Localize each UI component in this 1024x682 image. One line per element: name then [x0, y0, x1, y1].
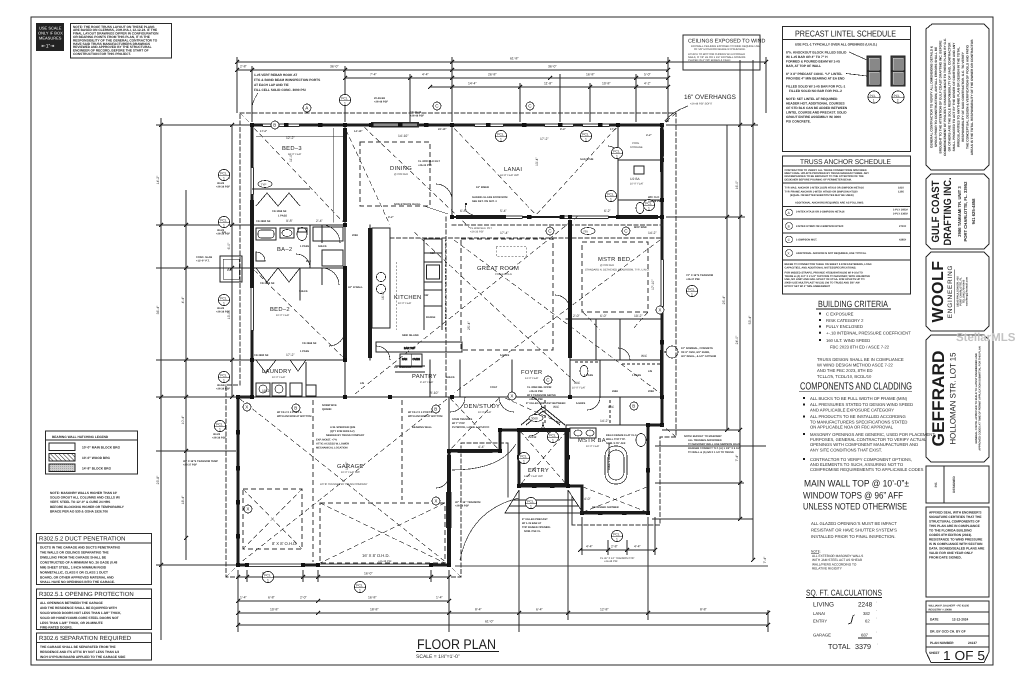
svg-text:8'-10" FLAT: 8'-10" FLAT [420, 381, 434, 384]
svg-text:RELATIVE RIGIDITY: RELATIVE RIGIDITY [812, 567, 843, 571]
components and cladding [799, 382, 935, 473]
svg-text:C EXPOSURE: C EXPOSURE [826, 311, 854, 316]
svg-text:ALL BUCKS TO BE FULL WIDTH OF: ALL BUCKS TO BE FULL WIDTH OF FRAME (MIN… [810, 396, 908, 401]
wc oval near foyer [580, 366, 588, 377]
svg-text:SHALL HAVE NO OPENINGS INTO TH: SHALL HAVE NO OPENINGS INTO THE GARAGE. [40, 580, 115, 584]
svg-text:10'-0" FLAT W/P: 10'-0" FLAT W/P [341, 471, 360, 474]
svg-text:1 PASS: 1 PASS [632, 374, 641, 377]
svg-text:18” RISER: 18” RISER [476, 186, 489, 189]
kitchen counters [372, 228, 390, 328]
svg-text:STORAGE: STORAGE [630, 146, 643, 149]
svg-text:INCH GYPSUM BOARD APPLIED TO T: INCH GYPSUM BOARD APPLIED TO THE GARAGE … [40, 655, 125, 659]
svg-text:NONMETALLIC, CLASS 0 OR CLASS: NONMETALLIC, CLASS 0 OR CLASS 1 DUCT [40, 571, 108, 575]
svg-text:AND THE FBC 2023, 8TH ED: AND THE FBC 2023, 8TH ED [817, 368, 873, 373]
svg-text:2-MTEK HTA16 OR 2-SIMPSON HE: 2-MTEK HTA16 OR 2-SIMPSON HETA16 [796, 211, 845, 214]
svg-text:SEE DET. ON SHT. 3: SEE DET. ON SHT. 3 [472, 200, 497, 203]
svg-text:VERT. STEEL TO 12’-0” & CURE 2: VERT. STEEL TO 12’-0” & CURE 24 HRS [50, 500, 110, 504]
svg-text:DESIGNER BEFORE POURING OF PER: DESIGNER BEFORE POURING OF PERIMETER BEA… [785, 178, 852, 181]
svg-text:NOTE:: NOTE: [811, 550, 821, 554]
precast lintel schedule box [783, 27, 911, 152]
svg-text:24'-0": 24'-0" [735, 335, 739, 344]
svg-text:6'-8”: 6'-8” [460, 209, 467, 213]
svg-text:687: 687 [861, 633, 869, 638]
lanai top wall windows [545, 123, 573, 128]
roof overhang dashed outline [226, 113, 676, 577]
title block: affixed seal note [926, 507, 989, 597]
svg-text:TOP RAISED OPENING: TOP RAISED OPENING [522, 526, 550, 529]
roof truss note box (top-left) [71, 24, 172, 59]
svg-text:1'-4": 1'-4" [436, 596, 444, 600]
svg-text:17'-2”: 17'-2” [286, 353, 295, 357]
hall diagonals [346, 130, 565, 425]
svg-text:ALL GLAZED OPENING’S MUST BE I: ALL GLAZED OPENING’S MUST BE IMPACT [811, 521, 897, 526]
svg-text:FBC 2023 8TH ED / ASCE 7-22: FBC 2023 8TH ED / ASCE 7-22 [830, 344, 890, 349]
svg-text:1'-4": 1'-4" [240, 596, 248, 600]
svg-text:ATTIC TRUSSES BY TRUSS COMPANY: ATTIC TRUSSES BY TRUSS COMPANY [320, 483, 368, 486]
svg-text:MM) SHEET STEEL, 1 INCH MINIMU: MM) SHEET STEEL, 1 INCH MINIMUM RIGID [40, 566, 107, 570]
garage X big [320, 503, 445, 563]
svg-text:11'-0”: 11'-0” [289, 154, 293, 162]
svg-text:4'-4": 4'-4" [422, 73, 430, 77]
svg-text:FTG & BOND BEAM W/INSPECTION P: FTG & BOND BEAM W/INSPECTION PORTS [254, 78, 320, 82]
svg-text:CAPACITIES, AND ADDITIONAL NOT: CAPACITIES, AND ADDITIONAL NOTES/SPECIFI… [785, 266, 857, 269]
svg-text:2-MTEK HTM20 OR 2-SIMPSON HT: 2-MTEK HTM20 OR 2-SIMPSON HTS20 [796, 225, 844, 228]
svg-text:+26-33 PSF: +26-33 PSF [418, 164, 432, 167]
svg-text:R302.6 SEPARATION REQUIRED: R302.6 SEPARATION REQUIRED [39, 635, 132, 642]
garage header notes [277, 404, 550, 533]
svg-text:OF STD BLK CAN BE ADDED BETWEE: OF STD BLK CAN BE ADDED BETWEEN [786, 106, 848, 110]
svg-text:14'-2": 14'-2" [156, 175, 160, 184]
svg-text:HANGER CONNECT TLT. (A) 1 1/2”: HANGER CONNECT TLT. (A) 1 1/2” X 5 1/2” [688, 447, 742, 450]
svg-text:STRUCTURAL COMPONENTS OF: STRUCTURAL COMPONENTS OF [929, 520, 980, 524]
svg-text:16'-8": 16'-8" [368, 596, 377, 600]
svg-text:9’-2”: 9’-2” [388, 216, 394, 219]
svg-text:1 PASS: 1 PASS [278, 215, 287, 218]
svg-text:TRUSS ANCHOR SCHEDULE: TRUSS ANCHOR SCHEDULE [800, 159, 891, 166]
scale check black box [36, 23, 64, 51]
svg-text:W/C: W/C [641, 354, 648, 358]
svg-text:CD 2880 NF: CD 2880 NF [256, 220, 271, 223]
svg-text:P.E.: P.E. [934, 482, 938, 488]
svg-text:DR. BY GCD CH. BY GF: DR. BY GCD CH. BY GF [930, 630, 966, 634]
svg-text:6'-4": 6'-4" [536, 608, 544, 612]
laundry [256, 383, 270, 396]
title block: signature/date rows [926, 601, 989, 663]
svg-text:USE PCL-1 TYPICALLY OVER ALL O: USE PCL-1 TYPICALLY OVER ALL OPENINGS (U… [795, 43, 877, 47]
svg-text:WINDOW TOPS @ 96” AFF: WINDOW TOPS @ 96” AFF [803, 490, 903, 501]
svg-text:16'-0": 16'-0" [364, 572, 373, 576]
svg-text:MECHANICAL LOCATION: MECHANICAL LOCATION [316, 447, 348, 450]
svg-text:SIGNATURE CERTIFIES THAT THE: SIGNATURE CERTIFIES THAT THE [929, 515, 981, 519]
svg-text:61'-0": 61'-0" [485, 620, 494, 624]
svg-text:1810: 1810 [898, 187, 904, 190]
lintel block icon 1 [867, 56, 881, 86]
building criteria [816, 299, 911, 379]
svg-text:4365#: 4365# [899, 239, 907, 242]
svg-text:HEADER HGT. ADDITIONAL COURSES: HEADER HGT. ADDITIONAL COURSES [786, 102, 845, 106]
kitchen/central diagonals [355, 127, 578, 394]
svg-text:EXP. MOIST. +7%: EXP. MOIST. +7% [316, 439, 338, 442]
svg-text:OF 8” CMU, 3/4” FURR,: OF 8” CMU, 3/4” FURR, [681, 351, 710, 354]
svg-text:1-SIMPSON MGT.: 1-SIMPSON MGT. [796, 239, 817, 242]
svg-text:AREAS IS THE TOTAL RESPONSIBIL: AREAS IS THE TOTAL RESPONSIBILITY OF THE… [970, 39, 974, 156]
svg-text:ALL TRUSSES ANCHORED: ALL TRUSSES ANCHORED [688, 439, 722, 442]
svg-text:DUCTS IN THE GARAGE AND DUCTS: DUCTS IN THE GARAGE AND DUCTS PENETRATIN… [40, 546, 121, 550]
wall construction note right [664, 346, 716, 358]
exterior walls [238, 125, 662, 565]
svg-text:SOLID GROUT ALL COLUMNS AND CE: SOLID GROUT ALL COLUMNS AND CELLS W/ [50, 496, 120, 500]
svg-text:FROM DATE SIGNED.: FROM DATE SIGNED. [929, 556, 962, 560]
svg-text:9'-8”: 9'-8” [286, 219, 293, 223]
svg-text:4'-2": 4'-2" [644, 82, 652, 86]
R302.6 separation required box [37, 633, 152, 660]
svg-text:6'-0”: 6'-0” [600, 314, 607, 318]
svg-text:2'-0”: 2'-0” [573, 314, 580, 318]
svg-text:DATE: DATE [930, 618, 938, 622]
svg-text:24137: 24137 [968, 641, 977, 645]
great room X [454, 240, 660, 393]
svg-text:LESS THAN 1-3/8” THICK, OR 20-: LESS THAN 1-3/8” THICK, OR 20-MINUTE [40, 621, 103, 625]
svg-text:10'-8": 10'-8" [602, 82, 611, 86]
svg-text:PROVIDE 4” MIN BEARING AT EA E: PROVIDE 4” MIN BEARING AT EA END [786, 77, 845, 81]
svg-text:SLIDING GLASS DOOR NOM: SLIDING GLASS DOOR NOM [472, 196, 507, 199]
svg-text:LIN: LIN [360, 382, 364, 385]
svg-text:+26-38 PSF: +26-38 PSF [455, 505, 469, 508]
svg-text:+26-48 PSF: +26-48 PSF [374, 101, 388, 104]
svg-text:6'-8": 6'-8" [268, 596, 276, 600]
svg-text:ENTRY: ENTRY [813, 619, 827, 624]
svg-text:B: B [294, 406, 297, 411]
svg-text:10'-4": 10'-4" [181, 415, 185, 424]
sq ft calculations [806, 588, 882, 652]
svg-text:3379: 3379 [855, 642, 871, 651]
svg-text:+26-38 PSF: +26-38 PSF [648, 200, 662, 203]
svg-text:2'-0": 2'-0" [300, 596, 308, 600]
svg-text:SCALE = 1/4”=1’-0”: SCALE = 1/4”=1’-0” [416, 654, 460, 660]
svg-text:R302.5.2 DUCT PENETRATION: R302.5.2 DUCT PENETRATION [39, 536, 125, 543]
svg-text:2668: 2668 [612, 390, 618, 393]
svg-text:ENGINEERING: ENGINEERING [947, 265, 954, 319]
svg-text:PCL: PCL [870, 94, 876, 98]
svg-text:13'-4”: 13'-4” [535, 157, 539, 166]
svg-text:+26-33 PSF: +26-33 PSF [529, 390, 543, 393]
svg-text:17'-4”: 17'-4” [500, 231, 509, 235]
lanai diagonals [454, 128, 616, 215]
svg-text:6'-0": 6'-0" [227, 242, 231, 250]
svg-text:WIC: WIC [574, 381, 581, 385]
svg-text:DESIGNED: DESIGNED [952, 475, 956, 492]
svg-text:COMMENCEMENT OF PROJECT. CHANG: COMMENCEMENT OF PROJECT. CHANGES MADE TO… [943, 38, 947, 156]
svg-text:36'-0": 36'-0" [548, 65, 557, 69]
svg-text:COMPONENTS AND CLADDING: COMPONENTS AND CLADDING [800, 382, 912, 393]
svg-text:TYP. MAS. ANCHOR 1-MTEK (: TYP. MAS. ANCHOR 1-MTEK (USP) HTA16 OR S… [785, 187, 865, 190]
svg-text:NOTE! BUCKET TO MASONRY: NOTE! BUCKET TO MASONRY [684, 435, 722, 438]
svg-text:GARAGE: GARAGE [337, 463, 364, 470]
svg-text:2068: 2068 [352, 234, 358, 237]
svg-text:NON-STRUCS IN-FILL: NON-STRUCS IN-FILL [394, 203, 421, 206]
svg-text:INSTALLED PRIOR TO FINAL INSPE: INSTALLED PRIOR TO FINAL INSPECTION. [811, 534, 896, 539]
svg-text:36'-4": 36'-4" [156, 305, 160, 314]
svg-text:GENERAL CONTRACTOR TO VERIFY A: GENERAL CONTRACTOR TO VERIFY ALL DIMENSI… [930, 45, 934, 148]
svg-text:PAN: PAN [402, 358, 407, 361]
bifold closet doors (zigzag) [252, 189, 310, 373]
mstr bed X [582, 242, 648, 312]
svg-text:CODES 8TH EDITION (2023).: CODES 8TH EDITION (2023). [929, 533, 972, 537]
svg-text:WILLIAM P. DALHEFF - PE 9310: WILLIAM P. DALHEFF - PE 93105 [929, 605, 970, 608]
svg-text:NOTE: SET LINTEL AT REQUIRED: NOTE: SET LINTEL AT REQUIRED [786, 97, 838, 101]
svg-text:2710#: 2710# [899, 225, 907, 228]
left dimension lines [156, 118, 250, 640]
svg-text:10” NOMINAL, CONSISTS: 10” NOMINAL, CONSISTS [681, 347, 713, 350]
svg-text:THE CONCEPTUAL DESIGN & VERIFI: THE CONCEPTUAL DESIGN & VERIFICATION OF … [966, 45, 970, 149]
svg-text:10'-0" FLAT: 10'-0" FLAT [586, 445, 600, 448]
AC pad [220, 256, 242, 282]
fridge/pantry shelves [395, 365, 425, 367]
svg-text:FILL CELL SOLID CONC. 3000 PSI: FILL CELL SOLID CONC. 3000 PSI [254, 88, 306, 92]
bed3 diagonal [254, 128, 343, 222]
svg-text:5'-0": 5'-0" [644, 73, 652, 77]
svg-text:(QTY FOR R302.5.2): (QTY FOR R302.5.2) [330, 430, 355, 433]
R302.5.2 duct penetration box [37, 534, 152, 585]
svg-text:+26-37 PSF: +26-37 PSF [686, 278, 700, 281]
svg-text:2248: 2248 [858, 602, 873, 609]
svg-text:2986 TAMIAMI TR. UNIT 3: 2986 TAMIAMI TR. UNIT 3 [957, 186, 962, 237]
svg-text:R302.5.1 OPENING PROTECTION: R302.5.1 OPENING PROTECTION [39, 591, 134, 598]
svg-text:36'-0": 36'-0" [330, 65, 339, 69]
svg-text:LINTEL COURSE AND PRECAST. SOL: LINTEL COURSE AND PRECAST. SOLID [786, 111, 847, 115]
svg-text:10’-0” WOOD BRG: 10’-0” WOOD BRG [82, 456, 111, 460]
svg-text:+26-38 PSF: +26-38 PSF [216, 186, 230, 189]
main wall notes [803, 478, 909, 571]
svg-text:NOTE: MASONRY WALLS HIGHER THA: NOTE: MASONRY WALLS HIGHER THAN 10’ [50, 491, 117, 495]
svg-text:SOLID OR HONEYCOMB CORE STEEL: SOLID OR HONEYCOMB CORE STEEL DOORS NOT [40, 616, 119, 620]
svg-text:ADDITIONAL ANCHOR IS NOT REQUI: ADDITIONAL ANCHOR IS NOT REQUIRED, USE T… [796, 252, 867, 255]
svg-text:BAR TOP: BAR TOP [404, 347, 416, 350]
svg-text:RESISTANT OR HAVE SHUTTER SYST: RESISTANT OR HAVE SHUTTER SYSTEM’S [811, 528, 897, 533]
svg-text:11'-8": 11'-8" [544, 82, 553, 86]
svg-text:22’-10”: 22’-10” [438, 128, 447, 131]
svg-text:BEFORE BLOCKING HIGHER OR TEMP: BEFORE BLOCKING HIGHER OR TEMPORARILY [50, 505, 125, 509]
svg-text:KITCHEN: KITCHEN [394, 294, 422, 301]
right dimension lines [666, 60, 758, 560]
svg-text:REF: REF [430, 252, 436, 255]
svg-text:W/ 1-#5 BAR OR 4” TO 7” H: W/ 1-#5 BAR OR 4” TO 7” H [786, 55, 828, 59]
svg-text:GULF COAST: GULF COAST [930, 180, 942, 242]
svg-text:12'-0" FLAT W/P: 12'-0" FLAT W/P [524, 475, 543, 478]
svg-text:PSI CONCRETE.: PSI CONCRETE. [786, 120, 811, 124]
svg-text:SOLID WOOD DOORS NOT LESS THAN: SOLID WOOD DOORS NOT LESS THAN 1-3/8” TH… [40, 611, 121, 615]
svg-text:GARAGE: GARAGE [813, 633, 831, 638]
svg-text:14'-4": 14'-4" [468, 82, 477, 86]
svg-text:5-SHFS: 5-SHFS [576, 402, 585, 405]
svg-text:FILLED SOLID W/ 1-#5 BAR FOR P: FILLED SOLID W/ 1-#5 BAR FOR PCL-1 [786, 85, 846, 89]
svg-text:8' X 8' O.H.D.: 8' X 8' O.H.D. [272, 541, 297, 546]
shower X [583, 487, 647, 512]
svg-text:X: X [245, 405, 248, 410]
svg-text:UNLESS NOTED OTHERWISE: UNLESS NOTED OTHERWISE [803, 501, 907, 512]
door arcs [296, 146, 630, 488]
top dimension lines [237, 57, 766, 122]
ceilings exposed to wind note box [683, 35, 765, 70]
svg-text:62: 62 [865, 619, 870, 624]
svg-text:8” FILLED PRECAST: 8” FILLED PRECAST [522, 518, 548, 521]
svg-text:BUILDING CRITERIA: BUILDING CRITERIA [818, 299, 888, 309]
svg-text:A.W. SPENCER QHS: A.W. SPENCER QHS [330, 426, 355, 429]
R302.5.1 opening protection box [37, 589, 152, 630]
svg-text:1-#5 VERT REBAR HOOK AT: 1-#5 VERT REBAR HOOK AT [254, 73, 297, 77]
svg-text:WITH ANCHOR AT BOTTOM: WITH ANCHOR AT BOTTOM [277, 415, 311, 418]
svg-text:10'-0" FLAT: 10'-0" FLAT [272, 376, 286, 379]
svg-text:OF 5/8” EXTERIOR GRADE GYPSUM: OF 5/8” EXTERIOR GRADE GYPSUM BRD. [694, 48, 746, 51]
bottom dimension lines [238, 430, 768, 632]
svg-text:CD 2880 NF: CD 2880 NF [254, 354, 269, 357]
svg-text:CD 3068 NF: CD 3068 NF [272, 210, 287, 213]
svg-text:8'-8": 8'-8" [700, 608, 708, 612]
PCL-1 marker [868, 91, 880, 103]
svg-text:14'-10”: 14'-10” [398, 134, 408, 138]
svg-text:CL 3000 BLK FILT: CL 3000 BLK FILT [418, 160, 440, 163]
svg-text:WITH ANCHOR AT BOTTOM: WITH ANCHOR AT BOTTOM [408, 415, 442, 418]
svg-text:OVEN: OVEN [413, 358, 420, 361]
svg-text:LIVING: LIVING [813, 602, 834, 609]
svg-text:10'-0" FLAT: 10'-0" FLAT [276, 314, 290, 317]
svg-text:OR OTHERS ARE THE SOLE RESPONS: OR OTHERS ARE THE SOLE RESPONSIBILITY OF… [948, 42, 952, 152]
svg-text:12'-8": 12'-8" [600, 608, 609, 612]
svg-text:8” X 8” PRECAST CONC. “U” LINT: 8” X 8” PRECAST CONC. “U” LINTEL [786, 72, 842, 76]
svg-text:17’-2”: 17’-2” [260, 130, 268, 133]
windows (white gap + double line) [250, 122, 665, 454]
svg-text:GEFFRARD: GEFFRARD [929, 351, 948, 447]
svg-text:7'-4": 7'-4" [370, 73, 378, 77]
svg-text:8” FILLED PRECAST BETWEEN: 8” FILLED PRECAST BETWEEN [526, 402, 565, 405]
svg-text:2: 2 [897, 99, 899, 103]
svg-text:ATTIC ACCESS W. LOWER: ATTIC ACCESS W. LOWER [316, 443, 349, 446]
interior dashed truss/ceiling lines [226, 113, 676, 577]
svg-text:RESPONSIBILITY OF SAID CONTRAC: RESPONSIBILITY OF SAID CONTRACTOR. G.C. … [961, 51, 965, 142]
svg-text:⇤1”⇥: ⇤1”⇥ [42, 44, 55, 50]
svg-text:RESISTANCE TO WIND PRESSURE: RESISTANCE TO WIND PRESSURE [929, 538, 982, 542]
interior walls [252, 125, 662, 486]
svg-text:LANAI: LANAI [504, 167, 522, 173]
svg-text:THE WALLS OR CEILINGS SEPARATI: THE WALLS OR CEILINGS SEPARATING THE [40, 551, 109, 555]
island nook [376, 342, 462, 352]
svg-text:3/4” INSUL., & 1/2” GYPSUM: 3/4” INSUL., & 1/2” GYPSUM [681, 355, 716, 358]
svg-text:GREAT ROOM: GREAT ROOM [477, 265, 519, 272]
svg-text:7'-4": 7'-4" [763, 556, 767, 564]
kitchen upper-cabinet dashed lines [396, 240, 526, 330]
svg-text:795: 795 [583, 230, 588, 234]
title block: general notes box [926, 24, 989, 170]
driveway arc at entry [452, 444, 519, 560]
svg-text:5'-4”: 5'-4” [500, 209, 507, 213]
svg-text:4'-4": 4'-4" [634, 545, 642, 549]
svg-text:TRUSS DESIGN SHALL BE IN COMPL: TRUSS DESIGN SHALL BE IN COMPLIANCE [817, 357, 904, 362]
title block: project name GEFFRARD [926, 335, 989, 462]
svg-text:PANTRY: PANTRY [412, 374, 437, 380]
svg-text:PORT CHARLOTTE, FL. 33952: PORT CHARLOTTE, FL. 33952 [963, 181, 968, 242]
svg-text:941 625-4858: 941 625-4858 [971, 198, 976, 225]
svg-text:WALL TOP TYP.: WALL TOP TYP. [606, 438, 626, 441]
svg-text:FREE STANDING TUB: FREE STANDING TUB [608, 443, 611, 470]
svg-text:RECESSED SHOWER: RECESSED SHOWER [592, 506, 619, 509]
svg-text:CONSTRUCTED OF A MINIMUM NO. 2: CONSTRUCTED OF A MINIMUM NO. 26 GAGE (0.… [40, 561, 118, 565]
svg-text:STEM TRUSSES: STEM TRUSSES [452, 418, 472, 421]
svg-text:10'-2”: 10'-2” [634, 314, 643, 318]
svg-text:SQ. FT. CALCULATIONS: SQ. FT. CALCULATIONS [806, 588, 882, 598]
svg-text:BEARING WALL HATCHING LEGEND: BEARING WALL HATCHING LEGEND [52, 435, 109, 439]
svg-text:COFFER CLG: COFFER CLG [495, 273, 512, 276]
svg-text:W/ 7” POP: W/ 7” POP [452, 422, 465, 425]
svg-text:ENTRY: ENTRY [528, 468, 549, 474]
svg-text:FR. SHELVES: FR. SHELVES [394, 366, 411, 369]
entry X [520, 431, 567, 485]
svg-text:10'-0" FLAT: 10'-0" FLAT [572, 387, 586, 390]
svg-text:(EQUAL OR BETTER SUBSTITUTES M: (EQUAL OR BETTER SUBSTITUTES MAY BE USED… [790, 194, 854, 197]
bearing wall dark hatch segments [250, 128, 663, 563]
svg-text:DWELLING FROM THE GARAGE SHALL: DWELLING FROM THE GARAGE SHALL BE [40, 556, 106, 560]
svg-text:3068: 3068 [531, 417, 538, 421]
svg-text:8'-4": 8'-4" [475, 608, 483, 612]
svg-text:8”h. KNOCKOUT BLOCK FILLED SOL: 8”h. KNOCKOUT BLOCK FILLED SOLID [786, 51, 847, 55]
svg-text:B: B [273, 123, 276, 128]
den X [450, 398, 499, 450]
svg-text:10'-2”: 10'-2” [262, 389, 271, 393]
svg-text:10’-0” MAIN BLOCK BRG: 10’-0” MAIN BLOCK BRG [82, 446, 121, 450]
svg-text:PLACED IN 4” O/C EDGES & FIEL: PLACED IN 4” O/C EDGES & FIELD [688, 59, 731, 62]
svg-text:SINK ISLAND: SINK ISLAND [402, 334, 419, 337]
small left notes [183, 182, 480, 508]
svg-text:9’-4”: 9’-4” [560, 128, 566, 131]
svg-text:FULLY ENCLOSED: FULLY ENCLOSED [826, 324, 863, 329]
mstr ba sinks [570, 428, 596, 438]
svg-text:FORMED & POURED BEAM W/ 1-#5: FORMED & POURED BEAM W/ 1-#5 [786, 60, 840, 64]
svg-text:CL 3068 DBL DOOR: CL 3068 DBL DOOR [527, 386, 552, 389]
svg-text:AFFIXED SEAL WITH ENGINEER’S: AFFIXED SEAL WITH ENGINEER’S [929, 511, 982, 515]
svg-text:WIC: WIC [608, 405, 615, 409]
svg-text:HOLLOMAN STR. LOT 15: HOLLOMAN STR. LOT 15 [949, 352, 958, 445]
svg-text:2'-8": 2'-8" [611, 545, 619, 549]
extension lines up [236, 57, 238, 113]
svg-text:B: B [788, 225, 790, 229]
svg-text:2-2X12: 2-2X12 [528, 436, 537, 439]
svg-text:12'-2”: 12'-2” [286, 136, 295, 140]
svg-text:61'-8": 61'-8" [510, 57, 519, 61]
svg-text:POOL: POOL [632, 142, 640, 145]
svg-text:23'-8": 23'-8" [156, 475, 160, 484]
svg-text:1/2 BA: 1/2 BA [630, 177, 640, 181]
svg-text:BROUGHT TO THE ATTENTION OF GU: BROUGHT TO THE ATTENTION OF GULF COAST D… [939, 40, 943, 153]
svg-text:17’-2”: 17’-2” [610, 128, 618, 131]
svg-text:14’-8” BLOCK BRG: 14’-8” BLOCK BRG [82, 467, 112, 471]
svg-text:10'-0" FLAT: 10'-0" FLAT [398, 302, 412, 305]
svg-text:4’-2”: 4’-2” [646, 134, 652, 137]
svg-text:+26-33 PSF: +26-33 PSF [470, 231, 484, 234]
svg-text:160 ULT. WIND SPEED: 160 ULT. WIND SPEED [826, 338, 870, 343]
svg-text:10'-0" FLAT: 10'-0" FLAT [630, 183, 644, 186]
FLOOR PLAN title [416, 636, 499, 660]
svg-text:COMPROMISE REQUIREMENTS TO APP: COMPROMISE REQUIREMENTS TO APPLICABLE CO… [810, 467, 924, 472]
bucket to masonry note [684, 435, 742, 454]
svg-text:IRREGULARITIES TO ANYTHING PLA: IRREGULARITIES TO ANYTHING PLAN OR DESIG… [957, 47, 961, 148]
svg-text:NEEDED BY TRUSS COMPANY: NEEDED BY TRUSS COMPANY [326, 434, 365, 437]
leader lines [849, 52, 867, 60]
svg-text:2-PLY 2365#: 2-PLY 2365# [893, 212, 909, 215]
svg-text:THIS PLAN ARE IN COMPLIANCE: THIS PLAN ARE IN COMPLIANCE [929, 524, 980, 528]
svg-text:DW: DW [424, 294, 429, 297]
svg-text:14'-2”: 14'-2” [600, 419, 609, 423]
svg-text:42'-8" FLAT W/P: 42'-8" FLAT W/P [500, 174, 519, 177]
svg-text:4'-4”: 4'-4” [478, 445, 485, 449]
